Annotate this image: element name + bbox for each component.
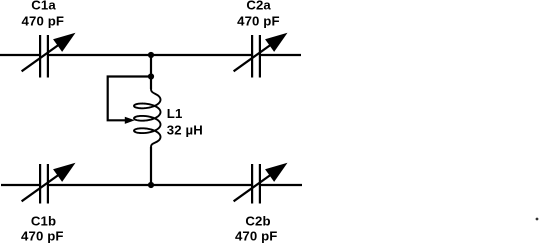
capacitor C2a arrow bbox=[234, 44, 272, 71]
wire top-left segment bbox=[0, 54, 40, 56]
capacitor C2a plates bbox=[251, 35, 253, 78]
svg-text:C2b: C2b bbox=[245, 213, 270, 228]
capacitor C2b arrow bbox=[234, 174, 272, 201]
wire bottom-left segment bbox=[1, 184, 40, 186]
capacitor C1b plates bbox=[39, 164, 41, 204]
capacitor C2b plates bbox=[251, 164, 253, 204]
junction node top bbox=[148, 52, 154, 58]
svg-text:470 pF: 470 pF bbox=[21, 229, 64, 244]
wire bottom-right segment bbox=[260, 184, 302, 186]
tap arrowhead pointing at coil bbox=[125, 117, 135, 124]
wire vertical branch bottom (coil to node) bbox=[150, 147, 152, 185]
wire top-middle segment bbox=[48, 54, 252, 56]
junction node tap bbox=[148, 73, 154, 79]
svg-text:470 pF: 470 pF bbox=[235, 229, 278, 244]
speck artifact bbox=[536, 218, 539, 221]
svg-text:C2a: C2a bbox=[246, 0, 271, 13]
svg-text:L1: L1 bbox=[167, 106, 183, 121]
svg-text:32 µH: 32 µH bbox=[167, 122, 203, 137]
inductor L1 coil bbox=[134, 89, 160, 147]
wire bottom-middle segment bbox=[48, 184, 252, 186]
svg-text:470 pF: 470 pF bbox=[237, 13, 280, 28]
svg-text:C1b: C1b bbox=[31, 213, 56, 228]
svg-text:470 pF: 470 pF bbox=[22, 13, 65, 28]
junction node bottom bbox=[148, 182, 154, 188]
wire top-right segment bbox=[260, 54, 301, 56]
svg-text:C1a: C1a bbox=[31, 0, 56, 13]
capacitor C1a arrow bbox=[22, 44, 60, 71]
tap wire from node to coil bbox=[108, 77, 151, 121]
capacitor C1b arrow bbox=[22, 174, 60, 201]
capacitor C1a plates bbox=[39, 35, 41, 78]
wire vertical branch top (node to coil) bbox=[150, 55, 152, 89]
